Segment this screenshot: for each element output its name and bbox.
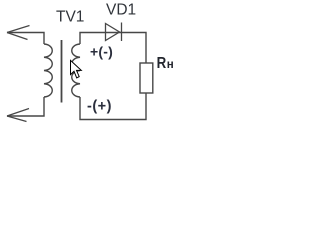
diode VD1	[106, 23, 122, 42]
svg-text:+(-): +(-)	[90, 43, 113, 59]
svg-text:н: н	[167, 59, 174, 71]
svg-text:TV1: TV1	[56, 9, 84, 26]
wire primary bottom to bottom-left arrow	[7, 97, 44, 116]
mouse cursor	[71, 60, 82, 78]
input terminal arrow top-left	[7, 26, 30, 40]
wire top-left to transformer primary	[7, 33, 44, 45]
transformer core	[61, 40, 63, 103]
svg-text:R: R	[157, 55, 167, 72]
svg-text:VD1: VD1	[106, 2, 136, 19]
transformer TV1 primary winding	[44, 44, 52, 97]
resistor Rn (load)	[140, 63, 153, 93]
svg-text:-(+): -(+)	[87, 98, 112, 114]
wire resistor bottom to secondary bottom	[80, 93, 146, 120]
transformer TV1 secondary winding	[72, 44, 80, 97]
input terminal arrow bottom-left	[7, 109, 29, 122]
wire secondary top to diode and right branch	[80, 33, 146, 64]
